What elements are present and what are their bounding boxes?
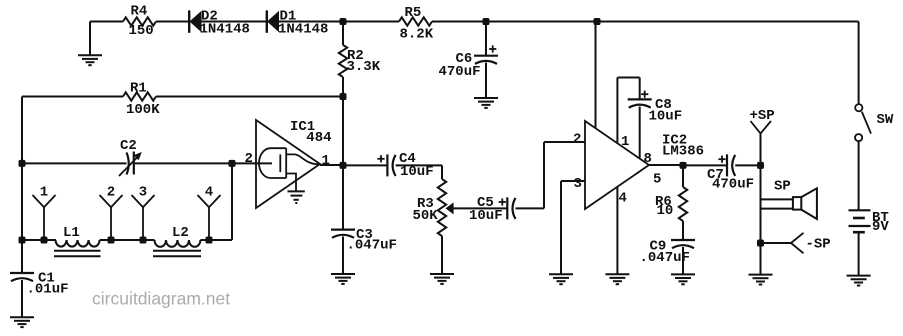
ground (C9) [671,273,695,275]
capacitor C8 10uF [628,98,652,100]
svg-text:2: 2 [107,185,115,201]
node junction antenna 2 [108,237,115,244]
wire tank vertical [231,163,233,240]
wire C9 to ground [682,247,684,274]
wire node to R2 [342,22,344,46]
svg-text:2: 2 [573,132,581,148]
antenna 4 [198,195,210,207]
svg-text:3: 3 [574,176,582,192]
wire C6 node to V+ node [486,21,597,23]
wire to speaker bottom [761,208,793,210]
ground (C3) [331,273,355,275]
capacitor C7 470uF [726,154,728,176]
ground (speaker) [749,274,773,276]
svg-text:5: 5 [653,172,661,188]
IC2 pin 4 line [616,187,618,274]
core of L2 [153,250,201,252]
ground (C1) [10,316,34,318]
ground (IC2 pin 3) [549,273,573,275]
capacitor C5 10uF [506,197,508,219]
svg-text:10uF: 10uF [649,109,683,125]
svg-text:484: 484 [306,130,331,146]
ground (C6) [474,97,498,99]
wire L1 to L2 [100,239,155,241]
svg-text:8.2K: 8.2K [400,27,434,43]
core of L1 [54,250,101,252]
ground (R3) [430,273,454,275]
node junction R2/R5 top [340,18,347,25]
node junction antenna 3 [140,237,147,244]
op-amp IC2 LM386 (triangle) [585,121,649,209]
svg-text:C2: C2 [120,138,137,154]
svg-text:50K: 50K [413,208,439,224]
wire D2 to D1 [202,21,268,23]
resistor R6 10 [679,187,687,221]
capacitor C6 470uF [474,55,498,57]
switch SW [855,104,862,111]
connector -SP [761,242,792,244]
wire D1 to node R2/R5 [279,21,399,23]
node junction V+ supply [594,18,601,25]
svg-text:R1: R1 [130,81,147,97]
svg-text:1: 1 [621,134,629,150]
antenna 2 [100,195,112,207]
ground (IC1) [288,190,305,192]
wire C1 to ground [21,280,23,317]
wire V+ supply to IC2 pin 6 [595,22,597,129]
svg-text:1N4148: 1N4148 [278,22,328,38]
wire C8 to IC2 pin 8 [639,107,641,158]
wire node to C3 [342,165,344,229]
R3 wiper arrow [446,202,454,214]
wire loop to C8 [639,78,641,100]
svg-text:.047uF: .047uF [347,238,397,254]
svg-text:9V: 9V [872,219,889,235]
wire C7 to speaker node [735,164,760,166]
wire left rail vertical [21,97,23,275]
wire IC2 pin 5 to node [649,164,683,166]
speaker SP [793,197,801,210]
connector +SP [751,121,761,134]
ground (top-left, under R4 input) [89,22,91,56]
svg-text:circuitdiagram.net: circuitdiagram.net [92,289,230,309]
svg-text:.01uF: .01uF [27,282,69,298]
node junction -SP [757,240,764,247]
IC2 pin 1 line [616,78,618,144]
wire node to C4 [343,164,387,166]
resistor R4 [123,17,156,25]
resistor R5 [399,17,432,25]
wire R5 to C6 node [432,21,486,23]
svg-text:-SP: -SP [806,237,831,253]
svg-text:SP: SP [774,179,791,195]
wire R6 to C9 [682,221,684,240]
wire IC1 pin1 to node [320,164,343,166]
wire wiper to C5 [453,207,507,209]
IC1 TO-92 body [259,148,286,178]
svg-text:10uF: 10uF [469,208,503,224]
wire node to C6 [485,22,487,56]
capacitor C2 (variable) [127,153,129,175]
svg-text:2: 2 [245,151,253,167]
node junction left rail / coil bus [19,237,26,244]
wire IC2 pin 3 [561,180,585,182]
wire top rail to switch [858,22,860,105]
battery BT 9V [849,209,871,211]
svg-text:L1: L1 [63,225,80,241]
wire switch to battery [858,141,860,210]
wire C8 loop top [617,77,639,79]
svg-text:R4: R4 [131,4,148,20]
wire to speaker top [761,198,793,200]
capacitor C1 .01uF [10,272,34,274]
svg-text:10: 10 [657,203,674,219]
wire left rail to R1 [22,96,123,98]
node junction output [680,162,687,169]
node junction C6 top [483,18,490,25]
svg-text:LM386: LM386 [662,144,704,160]
capacitor C9 .047uF [671,239,695,241]
capacitor C4 10uF [386,154,388,176]
capacitor C3 .047uF [331,229,355,231]
ground (IC2 pin 4) [605,273,629,275]
wire R4 to D2 [156,21,190,23]
wire bus left rail to L1 [22,239,56,241]
wire C2 to IC1 pin 2 [134,162,272,164]
svg-text:1: 1 [40,185,48,201]
svg-text:R5: R5 [405,5,422,21]
wire speaker column [760,134,762,275]
node junction tank / pin2 row [229,160,236,167]
svg-text:4: 4 [619,191,627,207]
diode D2 1N4148 [188,22,190,33]
wire top rail left segment (ground corner to R4) [90,21,123,23]
svg-text:150: 150 [129,23,154,39]
antenna 3 [132,195,144,207]
svg-text:4: 4 [205,185,213,201]
ground (battery) [847,275,871,277]
op-amp IC1 484 (triangle) [256,120,320,208]
wire R1 to R2 column [156,96,343,98]
node junction R1/R2 [340,93,347,100]
inductor L2 [155,240,201,247]
inductor L1 [56,240,100,247]
resistor R1 [123,92,156,100]
svg-text:1: 1 [322,153,330,169]
resistor R2 [339,45,347,77]
IC1 ground lead [286,174,296,192]
node junction C7 / +SP [757,162,764,169]
svg-text:+SP: +SP [750,108,775,124]
potentiometer R3 50K [438,179,446,236]
node junction antenna 4 [206,237,213,244]
node junction IC1 out / C3 / C4 [340,162,347,169]
wire C4 to R3 corner [396,164,442,166]
wire node to C7 [683,164,727,166]
wire left rail to C2 [22,162,127,164]
svg-text:SW: SW [877,112,894,128]
diode D1 1N4148 [266,22,268,33]
wire C6 to ground [485,63,487,99]
svg-text:3: 3 [139,185,147,201]
node junction antenna 1 [41,237,48,244]
wire C3 to ground [342,237,344,275]
antenna 1 [33,195,45,207]
wire R2 to IC1 pin1 node [342,77,344,166]
wire L2 to tank corner [200,239,232,241]
wire C5 to IC2 pin 2 [516,207,545,209]
svg-text:470uF: 470uF [712,177,754,193]
node junction left rail / C2 row [19,160,26,167]
wire battery to ground [858,232,860,275]
svg-text:100K: 100K [126,102,160,118]
svg-text:470uF: 470uF [439,64,481,80]
svg-text:1N4148: 1N4148 [200,22,250,38]
svg-text:3.3K: 3.3K [347,59,381,75]
wire node to R6 [682,165,684,187]
wire V+ node to switch corner [597,21,859,23]
svg-text:L2: L2 [172,225,189,241]
wire R3 to ground [441,236,443,274]
IC1 pin 1 lead curve [286,154,319,164]
